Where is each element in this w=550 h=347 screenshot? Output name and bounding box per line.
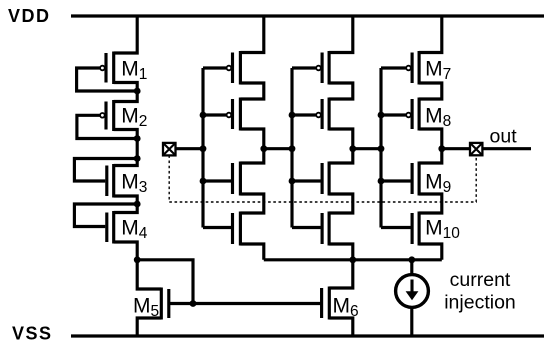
stage 1 PMOS B [203, 98, 264, 149]
node M1 drain / M2 source [134, 88, 141, 95]
transistor M1 (diode-connected PMOS) [77, 16, 148, 91]
dashed feedback net from out port to input port [169, 155, 476, 202]
stage 2 gate bus [290, 68, 293, 228]
node stage2 bus nmosA gate [289, 178, 296, 185]
node stage3 output [438, 145, 445, 152]
transistor M6 (NMOS mirror) [322, 260, 359, 336]
VSS rail [71, 334, 544, 337]
VDD rail [71, 14, 544, 17]
transistor M3 (diode-connected NMOS) [74, 159, 147, 205]
node M3 drain [134, 155, 141, 162]
wire bias node to M5/M6 gates [137, 260, 193, 304]
stage 1 input wire from port [176, 147, 204, 150]
node stage2 bus pmosB gate [289, 112, 296, 119]
transistor M10 (NMOS) [381, 212, 460, 260]
node stage1 bus pmosB gate [200, 112, 207, 119]
stage 1 output to stage 2 [264, 147, 292, 150]
stage 2 NMOS A [292, 149, 353, 213]
tail rail (sources to current source) [264, 258, 442, 261]
node stage2 input [289, 145, 296, 152]
node M2 drain [134, 135, 141, 142]
node stage1 input [200, 145, 207, 152]
stage 2 output to stage 3 [353, 147, 381, 150]
output port (X-box) [470, 143, 482, 155]
node stage1 bus nmosA gate [200, 178, 207, 185]
node tail / current source [408, 256, 415, 263]
svg-text:VDD: VDD [8, 6, 51, 26]
current source I1 [396, 260, 429, 336]
input port (X-box) [163, 143, 176, 156]
stage 1 gate bus [201, 68, 204, 228]
svg-text:injection: injection [444, 292, 516, 314]
stage 3 gate bus [379, 68, 382, 228]
node stage3 bus M8 gate [378, 112, 385, 119]
wire M2 source to M3 drain [136, 139, 139, 159]
out wire [482, 147, 531, 150]
node bias (M4 source / M5 drain) [134, 256, 141, 263]
transistor M9 (NMOS) [381, 149, 451, 213]
transistor M7 (PMOS) [381, 16, 451, 99]
transistor M4 (diode-connected NMOS) [74, 204, 147, 260]
transistor M5 (NMOS mirror, mirrored symbol) [133, 260, 169, 336]
transistor M2 (diode-connected PMOS) [77, 91, 147, 139]
node tail / M6 drain [349, 256, 356, 263]
stage 3 output wire to out port [442, 147, 470, 150]
node stage3 bus M9 gate [378, 178, 385, 185]
svg-text:VSS: VSS [12, 324, 53, 344]
stage 1 PMOS A [203, 16, 264, 99]
stage 1 NMOS A [203, 149, 264, 213]
stage 2 NMOS B [292, 212, 353, 260]
node M3 source / M4 drain [134, 201, 141, 208]
stage 1 NMOS B [203, 212, 264, 260]
svg-text:out: out [490, 126, 518, 148]
wire M5 gate to M6 gate [169, 302, 322, 305]
node stage3 input [378, 145, 385, 152]
node stage2 output [349, 145, 356, 152]
node stage1 output [260, 145, 267, 152]
transistor M8 (PMOS) [381, 98, 451, 149]
stage 2 PMOS B [292, 98, 353, 149]
stage 2 PMOS A [292, 16, 353, 99]
node M5/M6 gate [190, 300, 197, 307]
svg-text:current: current [450, 269, 511, 291]
